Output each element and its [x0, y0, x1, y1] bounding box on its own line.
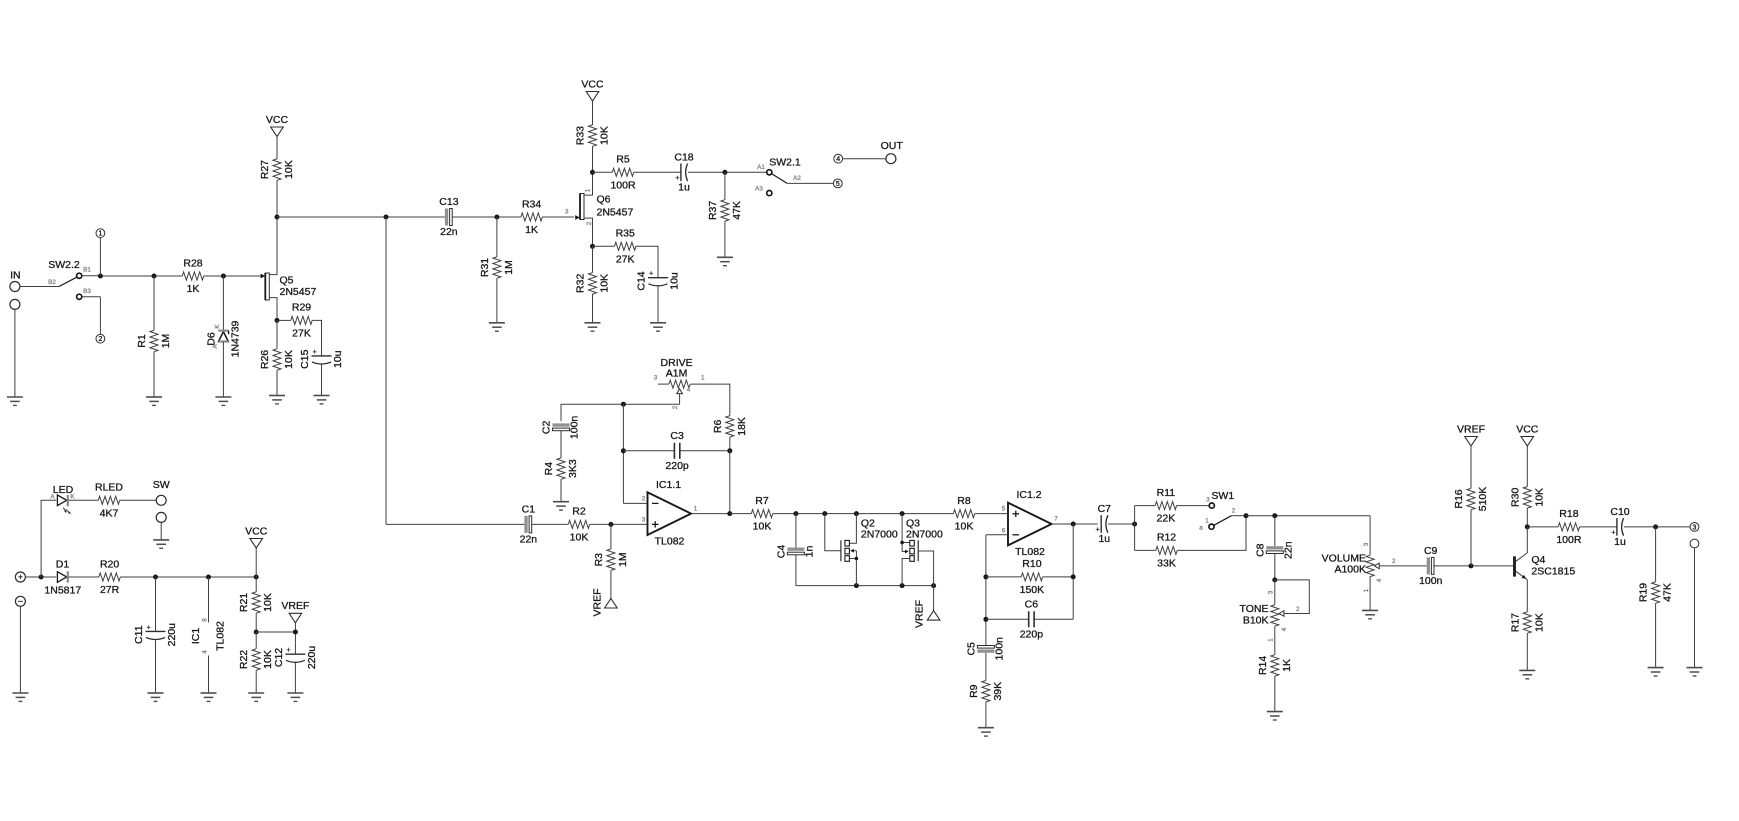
svg-text:R28: R28 — [183, 257, 202, 269]
svg-text:100n: 100n — [1419, 575, 1443, 587]
svg-text:a: a — [1199, 525, 1203, 532]
svg-text:R14: R14 — [1257, 656, 1269, 675]
svg-text:22n: 22n — [520, 533, 538, 545]
svg-text:100R: 100R — [610, 179, 636, 191]
svg-text:6: 6 — [1002, 528, 1006, 535]
svg-text:R22: R22 — [238, 650, 250, 669]
svg-text:VREF: VREF — [281, 600, 309, 612]
svg-text:1K: 1K — [1281, 659, 1293, 672]
svg-text:1u: 1u — [1098, 533, 1110, 545]
svg-text:8: 8 — [202, 618, 209, 622]
svg-text:+: + — [287, 647, 291, 654]
svg-text:R11: R11 — [1157, 487, 1176, 499]
svg-text:IN: IN — [10, 269, 21, 281]
svg-text:C11: C11 — [133, 625, 145, 644]
svg-text:Q5: Q5 — [280, 275, 294, 287]
svg-text:1N5817: 1N5817 — [44, 585, 81, 597]
svg-text:R3: R3 — [593, 553, 605, 567]
svg-text:D6: D6 — [206, 332, 218, 346]
svg-text:39K: 39K — [992, 682, 1004, 701]
svg-text:1: 1 — [1363, 588, 1370, 592]
svg-text:C15: C15 — [299, 349, 311, 368]
svg-text:RLED: RLED — [95, 482, 123, 494]
svg-text:10K: 10K — [570, 531, 589, 543]
svg-text:SW1: SW1 — [1211, 490, 1234, 502]
svg-text:C12: C12 — [273, 648, 285, 667]
svg-text:R17: R17 — [1509, 613, 1521, 632]
svg-text:3: 3 — [565, 209, 569, 216]
svg-text:220u: 220u — [166, 623, 178, 647]
svg-text:22K: 22K — [1157, 513, 1176, 525]
svg-text:220p: 220p — [1020, 628, 1044, 640]
svg-text:IC1: IC1 — [190, 628, 202, 645]
svg-text:1: 1 — [694, 506, 698, 513]
svg-text:10K: 10K — [753, 521, 772, 533]
svg-text:A3: A3 — [755, 186, 763, 193]
svg-text:2: 2 — [98, 336, 102, 343]
svg-text:B1: B1 — [83, 267, 91, 274]
svg-text:2: 2 — [586, 221, 593, 225]
svg-text:1M: 1M — [160, 334, 172, 349]
svg-text:10K: 10K — [599, 126, 611, 145]
svg-text:3: 3 — [642, 517, 646, 524]
svg-text:5: 5 — [836, 181, 840, 188]
svg-text:SW2.1: SW2.1 — [769, 157, 801, 169]
svg-text:VCC: VCC — [581, 78, 604, 90]
svg-text:R5: R5 — [616, 154, 630, 166]
svg-text:10u: 10u — [332, 350, 344, 368]
svg-text:1: 1 — [701, 375, 705, 382]
svg-text:+: + — [18, 573, 23, 582]
svg-text:C18: C18 — [674, 151, 693, 163]
svg-text:4K7: 4K7 — [100, 507, 119, 519]
svg-text:C14: C14 — [636, 271, 648, 290]
svg-text:R33: R33 — [575, 126, 587, 145]
svg-text:1n: 1n — [803, 546, 815, 558]
svg-text:R26: R26 — [259, 350, 271, 369]
svg-text:TL082: TL082 — [215, 621, 227, 651]
svg-text:SW2.2: SW2.2 — [48, 259, 80, 271]
svg-text:R1: R1 — [136, 334, 148, 348]
svg-text:27K: 27K — [616, 253, 635, 265]
svg-text:150K: 150K — [1020, 584, 1045, 596]
svg-text:220p: 220p — [665, 460, 689, 472]
svg-text:R10: R10 — [1022, 558, 1041, 570]
svg-text:VCC: VCC — [245, 525, 268, 537]
svg-text:3: 3 — [1363, 542, 1370, 546]
svg-text:VREF: VREF — [1457, 423, 1485, 435]
svg-text:R35: R35 — [616, 228, 635, 240]
svg-text:VREF: VREF — [592, 588, 604, 616]
svg-text:22n: 22n — [440, 226, 458, 238]
svg-text:33K: 33K — [1157, 557, 1176, 569]
svg-text:2N5457: 2N5457 — [280, 286, 317, 298]
svg-text:R19: R19 — [1638, 583, 1650, 602]
svg-text:R9: R9 — [968, 684, 980, 698]
svg-text:R27: R27 — [259, 160, 271, 179]
svg-text:100R: 100R — [1556, 534, 1582, 546]
svg-text:C1: C1 — [522, 503, 536, 515]
svg-text:R18: R18 — [1559, 508, 1578, 520]
svg-text:4: 4 — [1281, 627, 1288, 631]
svg-text:–: – — [18, 597, 23, 606]
svg-text:1: 1 — [1268, 638, 1275, 642]
svg-text:OUT: OUT — [881, 140, 904, 152]
svg-text:3K3: 3K3 — [567, 459, 579, 478]
svg-text:A1: A1 — [757, 164, 765, 171]
svg-text:1: 1 — [98, 231, 102, 238]
svg-text:10K: 10K — [262, 593, 274, 612]
svg-text:R30: R30 — [1509, 488, 1521, 507]
svg-text:1: 1 — [1205, 518, 1209, 525]
svg-text:1K: 1K — [187, 283, 200, 295]
svg-text:18K: 18K — [736, 417, 748, 436]
svg-text:3: 3 — [654, 375, 658, 382]
svg-text:C13: C13 — [439, 196, 458, 208]
svg-text:2: 2 — [1392, 558, 1396, 565]
svg-text:R21: R21 — [238, 593, 250, 612]
svg-text:C10: C10 — [1610, 506, 1629, 518]
svg-text:A100K: A100K — [1334, 564, 1366, 576]
svg-text:10K: 10K — [955, 521, 974, 533]
svg-text:4: 4 — [1376, 578, 1383, 582]
svg-text:1N4739: 1N4739 — [230, 320, 242, 357]
svg-text:R37: R37 — [707, 201, 719, 220]
svg-text:47K: 47K — [731, 201, 743, 220]
svg-text:2: 2 — [642, 496, 646, 503]
svg-text:B10K: B10K — [1243, 614, 1269, 626]
svg-text:47K: 47K — [1662, 583, 1674, 602]
svg-text:3: 3 — [1206, 497, 1210, 504]
svg-text:1u: 1u — [1614, 536, 1626, 548]
svg-text:IC1.1: IC1.1 — [656, 479, 681, 491]
svg-text:3: 3 — [1693, 524, 1697, 531]
svg-text:R16: R16 — [1453, 489, 1465, 508]
svg-text:R31: R31 — [479, 258, 491, 277]
svg-text:TONE: TONE — [1240, 603, 1269, 615]
svg-text:2: 2 — [1232, 508, 1236, 515]
svg-text:C4: C4 — [775, 545, 787, 559]
svg-text:10u: 10u — [669, 272, 681, 290]
svg-text:1M: 1M — [503, 260, 515, 275]
svg-text:27R: 27R — [100, 584, 120, 596]
svg-text:R2: R2 — [572, 506, 586, 518]
svg-text:1: 1 — [585, 188, 592, 192]
svg-text:C9: C9 — [1424, 545, 1438, 557]
svg-text:B2: B2 — [48, 279, 56, 286]
svg-text:100n: 100n — [569, 416, 581, 440]
svg-text:R20: R20 — [100, 558, 119, 570]
svg-text:510K: 510K — [1477, 487, 1489, 512]
svg-text:2N7000: 2N7000 — [906, 529, 943, 541]
svg-text:4: 4 — [687, 387, 691, 394]
svg-text:IC1.2: IC1.2 — [1016, 489, 1041, 501]
svg-text:+: + — [313, 349, 317, 356]
svg-text:D1: D1 — [56, 559, 70, 571]
svg-text:R6: R6 — [712, 420, 724, 434]
svg-text:2SC1815: 2SC1815 — [1531, 566, 1575, 578]
svg-text:22n: 22n — [1282, 541, 1294, 559]
svg-text:SW: SW — [153, 479, 170, 491]
svg-text:2: 2 — [672, 405, 679, 409]
svg-text:R4: R4 — [543, 462, 555, 476]
svg-text:2N5457: 2N5457 — [597, 206, 634, 218]
svg-text:10K: 10K — [1533, 488, 1545, 507]
svg-text:10K: 10K — [283, 350, 295, 369]
svg-text:+: + — [649, 271, 653, 278]
svg-text:R8: R8 — [957, 495, 971, 507]
svg-text:TL082: TL082 — [1015, 546, 1045, 558]
svg-text:27K: 27K — [292, 327, 311, 339]
svg-text:R32: R32 — [575, 274, 587, 293]
svg-text:C5: C5 — [965, 642, 977, 656]
svg-text:A2: A2 — [793, 175, 801, 182]
svg-text:100n: 100n — [993, 637, 1005, 661]
svg-text:C6: C6 — [1025, 598, 1039, 610]
svg-text:2: 2 — [1296, 606, 1300, 613]
svg-text:7: 7 — [1054, 516, 1058, 523]
svg-text:2N7000: 2N7000 — [861, 529, 898, 541]
svg-text:3: 3 — [1268, 590, 1275, 594]
svg-text:VREF: VREF — [914, 600, 926, 628]
svg-text:B3: B3 — [83, 288, 91, 295]
svg-text:4: 4 — [836, 156, 840, 163]
svg-text:+: + — [147, 624, 151, 631]
svg-text:10K: 10K — [599, 274, 611, 293]
svg-text:220u: 220u — [306, 646, 318, 670]
svg-text:C7: C7 — [1098, 503, 1112, 515]
svg-text:10K: 10K — [1533, 613, 1545, 632]
svg-text:10K: 10K — [283, 160, 295, 179]
svg-text:Q6: Q6 — [597, 194, 611, 206]
svg-text:1K: 1K — [525, 224, 538, 236]
svg-text:VCC: VCC — [266, 114, 289, 126]
svg-text:R7: R7 — [755, 495, 769, 507]
svg-text:R34: R34 — [522, 198, 541, 210]
svg-text:C2: C2 — [541, 421, 553, 435]
svg-text:TL082: TL082 — [655, 536, 685, 548]
svg-text:5: 5 — [1002, 506, 1006, 513]
svg-text:C3: C3 — [670, 430, 684, 442]
svg-text:1u: 1u — [678, 181, 690, 193]
svg-text:1M: 1M — [617, 552, 629, 567]
svg-text:R29: R29 — [292, 302, 311, 314]
svg-text:4: 4 — [202, 650, 209, 654]
svg-text:C8: C8 — [1254, 543, 1266, 557]
svg-text:Q4: Q4 — [1531, 554, 1545, 566]
svg-text:VCC: VCC — [1516, 423, 1539, 435]
svg-text:A1M: A1M — [666, 368, 688, 380]
svg-text:R12: R12 — [1157, 532, 1176, 544]
